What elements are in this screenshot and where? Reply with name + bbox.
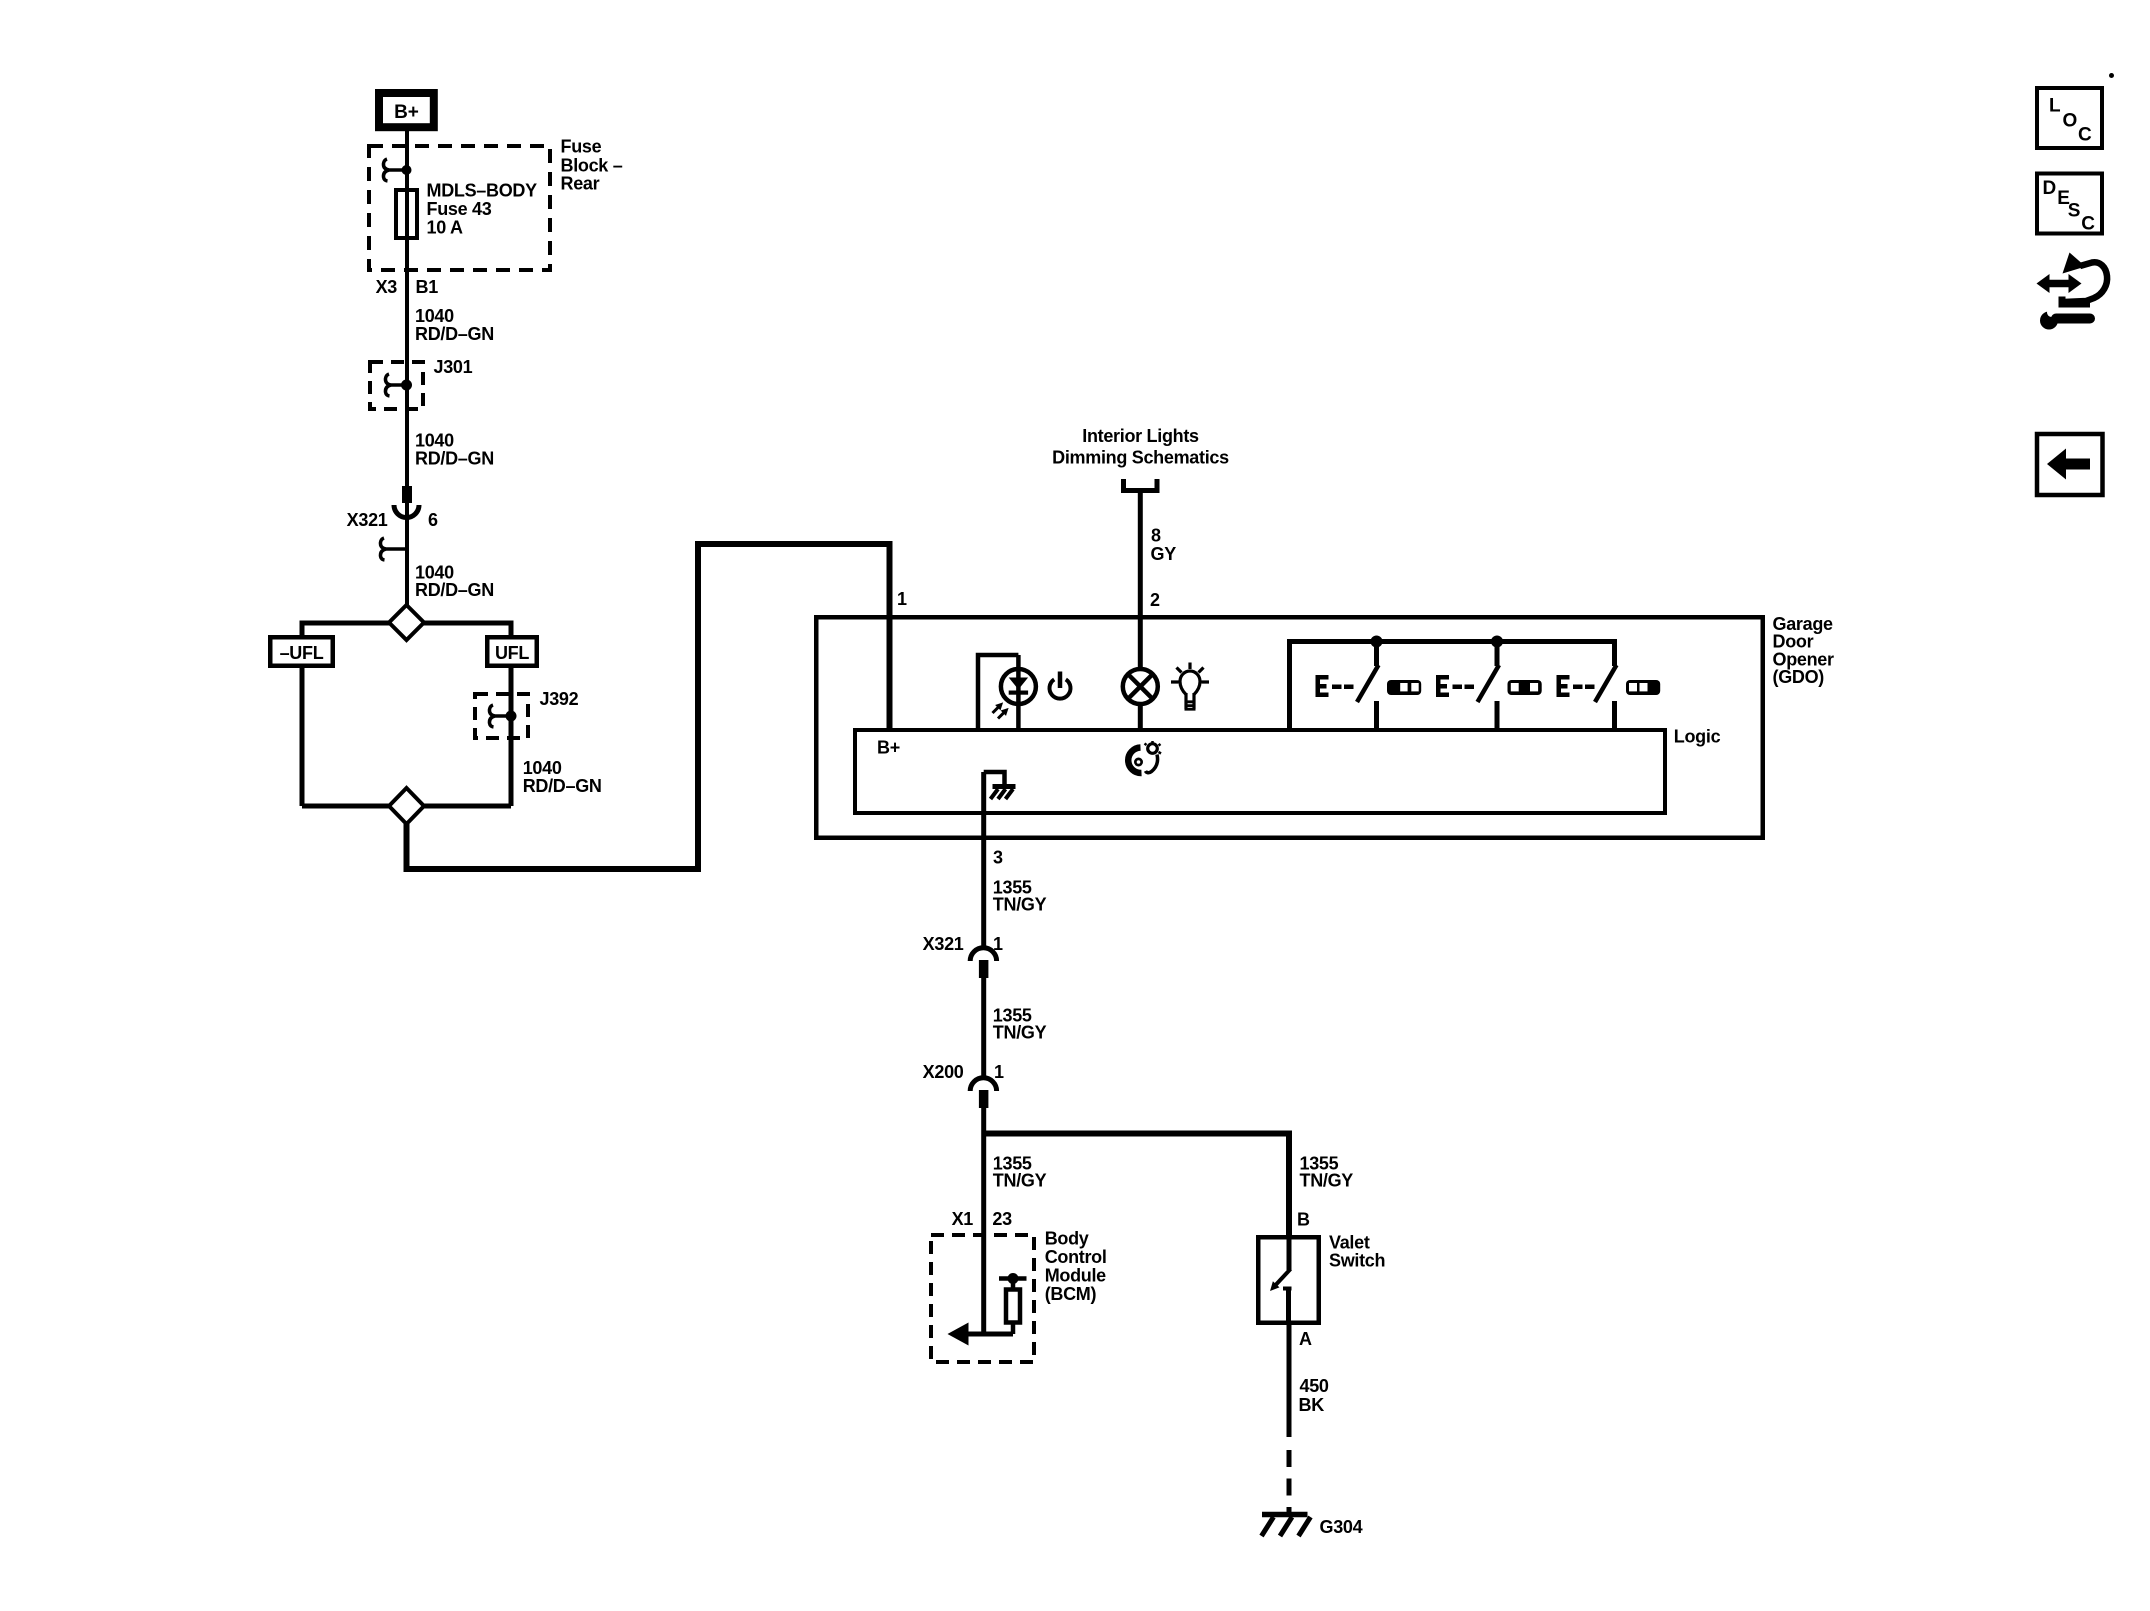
svg-text:RD/D–GN: RD/D–GN [415, 580, 494, 600]
svg-text:X321: X321 [923, 934, 964, 954]
svg-text:1040: 1040 [415, 306, 454, 326]
svg-text:C: C [2081, 214, 2095, 235]
svg-text:Switch: Switch [1329, 1250, 1385, 1270]
svg-text:B+: B+ [394, 102, 419, 123]
svg-text:TN/GY: TN/GY [993, 895, 1047, 915]
svg-text:Logic: Logic [1674, 726, 1721, 746]
svg-text:Rear: Rear [561, 174, 600, 194]
svg-text:(BCM): (BCM) [1045, 1284, 1097, 1304]
svg-text:X321: X321 [347, 510, 388, 530]
svg-text:B1: B1 [416, 277, 439, 297]
svg-text:TN/GY: TN/GY [993, 1171, 1047, 1191]
svg-text:(GDO): (GDO) [1773, 667, 1825, 687]
svg-text:Fuse 43: Fuse 43 [427, 199, 492, 219]
svg-text:X1: X1 [952, 1209, 974, 1229]
svg-text:O: O [2063, 110, 2078, 131]
svg-text:A: A [1299, 1329, 1312, 1349]
svg-text:TN/GY: TN/GY [993, 1023, 1047, 1043]
svg-text:Body: Body [1045, 1229, 1089, 1249]
svg-text:450: 450 [1300, 1376, 1329, 1396]
svg-text:Block –: Block – [561, 156, 623, 176]
svg-text:TN/GY: TN/GY [1300, 1171, 1354, 1191]
svg-text:RD/D–GN: RD/D–GN [415, 449, 494, 469]
svg-text:G304: G304 [1320, 1517, 1363, 1537]
svg-text:X200: X200 [923, 1062, 964, 1082]
svg-text:X3: X3 [376, 277, 398, 297]
svg-text:B: B [1297, 1210, 1310, 1230]
svg-text:Control: Control [1045, 1247, 1107, 1267]
svg-text:RD/D–GN: RD/D–GN [415, 324, 494, 344]
svg-text:BK: BK [1299, 1395, 1325, 1415]
svg-text:L: L [2049, 96, 2061, 117]
svg-text:D: D [2043, 178, 2057, 199]
svg-text:1040: 1040 [523, 758, 562, 778]
svg-text:–UFL: –UFL [280, 643, 324, 663]
svg-text:10 A: 10 A [427, 218, 463, 238]
svg-text:1: 1 [994, 1062, 1004, 1082]
svg-text:23: 23 [992, 1209, 1012, 1229]
svg-text:Interior Lights: Interior Lights [1082, 426, 1199, 446]
svg-text:S: S [2068, 201, 2081, 222]
svg-text:Fuse: Fuse [561, 137, 602, 157]
svg-text:J301: J301 [434, 357, 473, 377]
svg-text:B+: B+ [877, 738, 900, 758]
svg-text:Module: Module [1045, 1266, 1106, 1286]
svg-text:GY: GY [1151, 544, 1177, 564]
svg-text:3: 3 [993, 848, 1003, 868]
svg-text:8: 8 [1151, 526, 1161, 546]
svg-text:6: 6 [428, 510, 438, 530]
svg-text:RD/D–GN: RD/D–GN [523, 776, 602, 796]
svg-text:MDLS–BODY: MDLS–BODY [427, 181, 538, 201]
svg-text:Dimming Schematics: Dimming Schematics [1052, 448, 1229, 468]
svg-text:2: 2 [1150, 590, 1160, 610]
svg-text:C: C [2078, 125, 2092, 146]
svg-text:1: 1 [897, 589, 907, 609]
svg-text:J392: J392 [540, 689, 579, 709]
svg-text:1040: 1040 [415, 431, 454, 451]
svg-text:UFL: UFL [495, 643, 529, 663]
svg-text:1: 1 [993, 934, 1003, 954]
